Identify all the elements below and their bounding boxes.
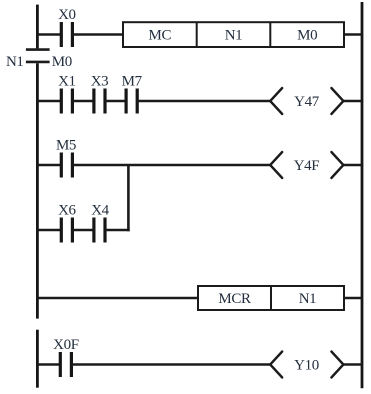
svg-text:Y10: Y10 — [294, 358, 319, 374]
wire rail to X0 — [37, 33, 61, 36]
left power rail (bottom segment) — [36, 330, 39, 388]
wire X3 to M7 — [105, 100, 126, 103]
contact X0 — [58, 7, 76, 47]
coil Y4F — [270, 152, 343, 178]
svg-text:M7: M7 — [122, 74, 143, 90]
svg-text:X4: X4 — [91, 203, 109, 219]
svg-text:MC: MC — [149, 28, 172, 44]
wire coil Y4F to right rail — [343, 164, 362, 167]
branch junction vertical wire — [127, 165, 130, 231]
svg-text:M0: M0 — [297, 28, 317, 44]
wire X6 to X4 — [72, 229, 94, 232]
contact M5 — [56, 138, 76, 178]
wire X4 to branch junction — [105, 229, 130, 232]
svg-text:N1: N1 — [299, 291, 317, 307]
wire X0 to MC box — [72, 33, 123, 36]
instruction box MCR N1 — [198, 286, 344, 310]
wire rail to X0F — [37, 363, 60, 366]
svg-text:Y4F: Y4F — [294, 158, 320, 174]
contact X4 — [91, 203, 109, 243]
wire MC box to right rail — [344, 33, 362, 36]
wire MCR box to right rail — [344, 297, 362, 300]
coil Y10 — [270, 352, 343, 378]
svg-text:Y47: Y47 — [294, 94, 320, 110]
wire rail to X1 — [37, 100, 61, 103]
svg-text:N1: N1 — [225, 28, 243, 44]
coil Y47 — [270, 88, 343, 114]
contact X0F — [53, 337, 79, 377]
svg-text:M0: M0 — [52, 54, 72, 70]
contact M0 on rail (MC nest marker) — [26, 50, 50, 62]
wire rail to MCR box — [37, 297, 198, 300]
right power rail — [361, 2, 364, 388]
svg-text:M5: M5 — [56, 138, 76, 154]
svg-text:X6: X6 — [58, 203, 76, 219]
svg-text:X0F: X0F — [53, 337, 79, 353]
wire X1 to X3 — [72, 100, 94, 103]
wire rail to M5 — [37, 164, 61, 167]
svg-text:X0: X0 — [58, 7, 76, 23]
wire M7 to coil Y47 — [137, 100, 270, 103]
contact X3 — [91, 74, 109, 114]
left power rail (MC zone segment) — [36, 63, 39, 318]
wire coil Y10 to right rail — [343, 363, 362, 366]
contact X6 — [58, 203, 76, 243]
left power rail (top segment) — [36, 5, 39, 49]
instruction box MC N1 M0 — [123, 22, 344, 47]
svg-text:MCR: MCR — [218, 291, 251, 307]
wire coil Y47 to right rail — [343, 100, 362, 103]
wire rail to X6 — [37, 229, 61, 232]
wire X0F to coil Y10 — [71, 363, 270, 366]
svg-text:X1: X1 — [58, 74, 76, 90]
wire M5 to coil Y4F — [72, 164, 270, 167]
contact X1 — [58, 74, 76, 114]
contact M7 — [122, 74, 143, 114]
svg-text:X3: X3 — [91, 74, 109, 90]
svg-text:N1: N1 — [6, 54, 24, 70]
